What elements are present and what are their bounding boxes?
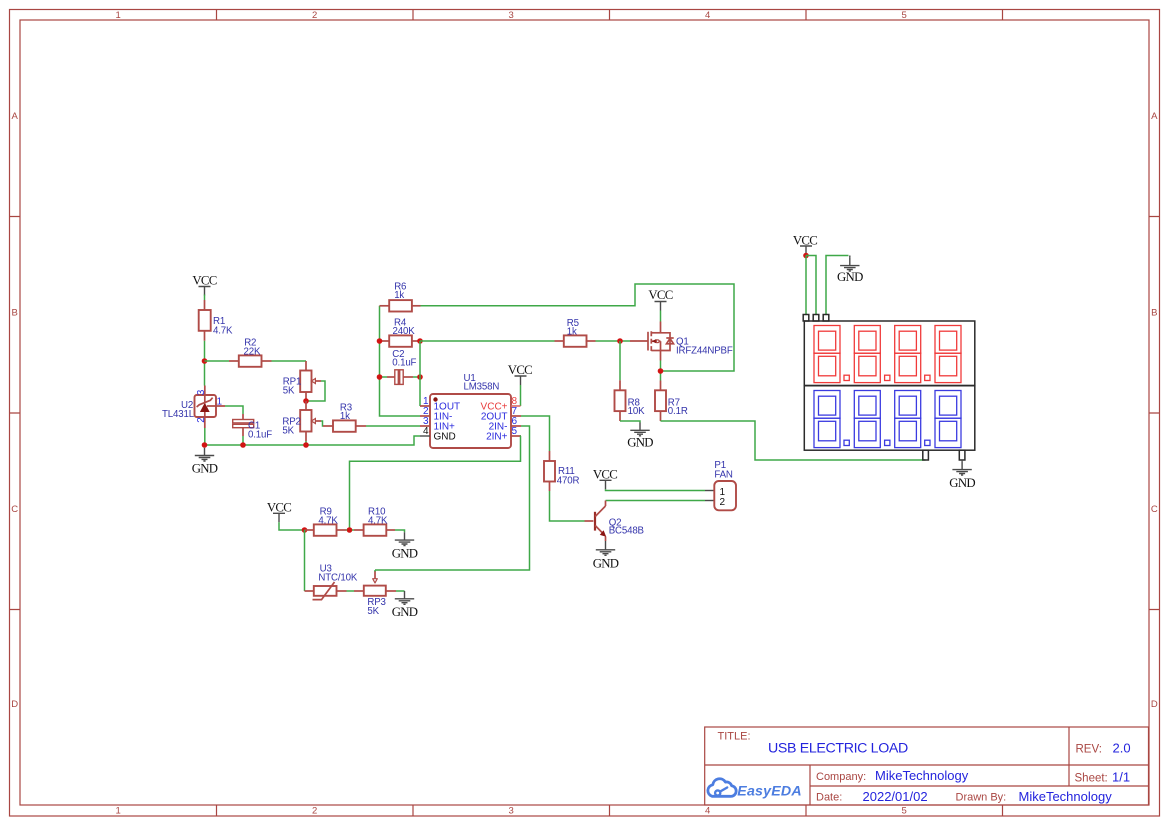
net VCC (above display) [793,234,817,256]
node junction C2 left [377,374,383,380]
svg-text:MikeTechnology: MikeTechnology [1019,789,1113,804]
svg-text:2.0: 2.0 [1113,740,1131,755]
resistor R10 [354,524,395,535]
capacitor C2 [380,370,421,385]
node junction R1/R2 [202,358,208,364]
svg-text:2: 2 [720,497,726,508]
seven-segment display module [803,315,975,461]
svg-text:TL431L: TL431L [162,409,195,420]
net VCC (left of P1) [593,467,617,489]
wire display pin3 to gnd [826,256,849,315]
node junction R4 left [377,338,383,344]
wire VCC to Q1 drain [660,311,662,322]
wire display pin2 [806,256,816,315]
ground GND (display top) [837,256,863,285]
svg-text:GND: GND [837,270,863,284]
svg-text:2IN+: 2IN+ [486,431,508,442]
wire RP2 wiper to R3 [321,421,323,426]
svg-text:EasyEDA: EasyEDA [737,783,802,799]
svg-text:VCC: VCC [192,274,216,288]
op-amp voltage ref U2 TL431L [195,386,226,429]
svg-text:1: 1 [116,806,121,817]
wire ground rail [205,436,421,445]
transistor Q1 IRFZ44NPBF [630,322,674,361]
display digit blue 2 [854,391,880,448]
svg-text:240K: 240K [393,326,416,337]
svg-text:5: 5 [902,806,907,817]
svg-text:VCC: VCC [267,500,291,514]
wire U1 pin7 to R11 [521,416,550,451]
svg-text:3: 3 [196,389,207,395]
svg-text:Date:: Date: [816,792,842,804]
svg-text:GND: GND [627,435,653,449]
svg-text:4.7K: 4.7K [318,515,338,526]
potentiometer RP2 [300,401,321,441]
svg-text:A: A [12,111,19,122]
svg-text:1k: 1k [340,411,350,422]
wire R5 to Q1 gate [596,340,631,342]
net VCC (above U1) [508,363,532,385]
wire gate junction down to R8 [619,341,621,380]
wire RP2 to ground rail [305,441,307,445]
wire U2 pin1 to C1 [225,406,243,414]
wire R11 to Q2 base [550,491,585,521]
net VCC (above Q1) [648,288,672,311]
svg-text:4: 4 [705,806,710,817]
svg-text:1: 1 [217,397,223,408]
wire R1 to U2 pin3 [204,341,206,386]
wire RP3 wiper up [374,570,376,572]
svg-text:4.7K: 4.7K [368,515,388,526]
wire RP1 wiper loop [306,381,325,401]
wire R4 junction to R5 [420,340,555,342]
svg-text:GND: GND [593,556,619,570]
svg-text:470R: 470R [557,475,580,486]
potentiometer RP3 [354,571,396,596]
capacitor C1 [233,414,254,436]
node junction R9/U3 [302,527,308,533]
wire VCC to R1 [204,295,206,301]
ground GND (under Q2) [593,541,619,570]
resistor R5 [555,335,596,346]
resistor R7 [655,381,666,422]
svg-text:1: 1 [116,10,121,21]
svg-text:A: A [1151,111,1158,122]
display digit blue 1 [814,391,840,448]
wire RP3 to ground [396,590,405,592]
svg-text:REV:: REV: [1076,743,1102,755]
svg-text:Company:: Company: [816,771,866,783]
resistor R8 [615,380,626,421]
ground GND (under R8) [627,423,653,450]
svg-text:1/1: 1/1 [1112,770,1130,785]
potentiometer RP1 [300,361,321,401]
svg-text:2: 2 [196,417,207,423]
svg-text:B: B [1151,308,1157,319]
svg-text:GND: GND [949,476,975,490]
ground GND (under RP3) [392,591,418,619]
svg-text:MikeTechnology: MikeTechnology [875,768,969,783]
wire R3 to U1 pin3 [366,425,420,427]
node junction RP1/RP2 [303,398,309,404]
node junction R9/R10 [347,527,353,533]
svg-text:C: C [1151,504,1158,515]
svg-text:5: 5 [902,10,907,21]
node junction Q1 source [658,368,664,374]
display digit blue 4 [935,391,961,448]
title block [705,727,1149,805]
svg-text:5: 5 [512,426,518,437]
display decimal points blue [844,440,930,445]
display digit red 4 [935,326,961,383]
wire R8 to ground [620,421,640,423]
wire VCC to P1 pin1 [606,489,706,490]
wire R9 node down to U3 [304,530,306,591]
wire R10 to ground [395,530,405,532]
net VCC (left, above R1) [192,274,216,296]
svg-text:LM358N: LM358N [464,382,500,393]
resistor R4 [380,335,421,346]
svg-text:0.1uF: 0.1uF [392,358,416,369]
wire C1 to ground rail [242,436,244,445]
node junction display VCC [803,253,809,259]
svg-text:1k: 1k [394,290,404,301]
net VCC (left of R9) [267,500,291,522]
thermistor U3 NTC/10K [305,582,347,600]
svg-text:FAN: FAN [714,469,733,480]
svg-text:3: 3 [509,806,514,817]
wire feedback rail right to U1 pin1 [419,341,421,406]
svg-text:GND: GND [192,462,218,476]
svg-text:D: D [1151,699,1158,710]
svg-text:22K: 22K [244,346,261,357]
svg-text:B: B [12,308,18,319]
node junction RP2/gnd [303,442,309,448]
node junction GND/U2 [202,442,208,448]
wire R6 to Q1 source loop [421,284,735,371]
wire R2 to RP1 [272,360,307,362]
svg-text:TITLE:: TITLE: [718,731,751,743]
svg-text:BC548B: BC548B [609,526,644,537]
wire junction to R2 [205,360,230,362]
ground GND (under R10) [392,532,418,560]
ground GND (left) [192,448,218,476]
display digit red 3 [895,326,921,383]
op-amp U1 LM358N [420,394,521,448]
svg-text:4: 4 [705,10,710,21]
svg-text:2: 2 [312,10,317,21]
node junction gate/R8 [617,338,623,344]
svg-text:4: 4 [423,426,429,437]
wire Q2 collector to P1 pin2 [606,500,706,502]
resistor R3 [323,420,366,431]
wire R7 to display common [661,421,926,460]
wire U3 to RP3 [347,590,355,592]
EasyEDA logo [708,779,736,797]
svg-text:GND: GND [392,605,418,619]
display digit red 1 [814,326,840,383]
wire VCC to U1 pin8 [520,385,522,406]
svg-text:GND: GND [434,431,456,442]
svg-text:Sheet:: Sheet: [1075,773,1108,785]
svg-text:IRFZ44NPBF: IRFZ44NPBF [676,346,733,357]
svg-text:0.1R: 0.1R [668,406,688,417]
resistor R11 [544,451,555,491]
svg-text:10K: 10K [628,406,645,417]
transistor Q2 BC548B [585,501,607,542]
node junction R4 right [417,338,423,344]
wire left feedback rail [380,306,421,416]
svg-text:5K: 5K [283,386,295,397]
svg-text:VCC: VCC [508,363,532,377]
wire display pin1 [805,256,807,315]
display digit blue 3 [895,391,921,448]
svg-text:VCC: VCC [593,467,617,481]
svg-text:Drawn By:: Drawn By: [956,792,1007,804]
wire VCC to R9 [279,522,305,530]
resistor R6 [380,300,421,311]
ground GND (display bottom) [949,460,975,490]
svg-text:3: 3 [509,10,514,21]
wire U2 pin2 to ground rail [204,428,206,445]
svg-text:4.7K: 4.7K [213,326,233,337]
resistor R9 [305,524,347,535]
svg-text:GND: GND [392,547,418,561]
wire R9 to R10 [346,529,354,531]
resistor R2 [229,355,272,366]
svg-text:2: 2 [312,806,317,817]
wire U1 pin6 to RP3 wiper [375,426,530,570]
wire U1 pin5 to R9/R10 node [350,436,522,530]
wire Q1 source to junction [660,361,662,381]
svg-text:5K: 5K [282,426,294,437]
resistor R1 [199,300,211,341]
node junction C1/gnd [240,442,246,448]
svg-text:C: C [11,504,18,515]
svg-text:5K: 5K [367,606,379,617]
svg-text:VCC: VCC [648,288,672,302]
svg-text:0.1uF: 0.1uF [248,430,272,441]
svg-text:D: D [11,699,18,710]
node junction C2 right [417,374,423,380]
svg-text:USB ELECTRIC LOAD: USB ELECTRIC LOAD [768,741,908,757]
display decimal points red [844,375,930,380]
svg-text:NTC/10K: NTC/10K [318,572,357,583]
svg-text:2022/01/02: 2022/01/02 [863,789,928,804]
display digit red 2 [854,326,880,383]
connector P1 FAN [705,481,736,510]
svg-text:1k: 1k [567,326,577,337]
